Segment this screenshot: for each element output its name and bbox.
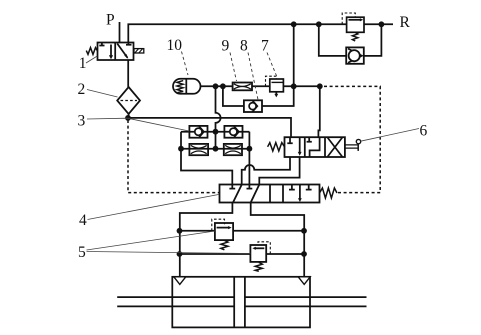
svg-text:10: 10: [167, 37, 183, 54]
svg-text:9: 9: [222, 38, 230, 55]
svg-text:P: P: [106, 12, 115, 29]
svg-text:5: 5: [78, 244, 86, 261]
svg-text:8: 8: [240, 38, 248, 55]
svg-text:4: 4: [79, 212, 87, 229]
svg-text:1: 1: [79, 55, 87, 72]
svg-text:2: 2: [78, 81, 86, 98]
svg-text:R: R: [400, 14, 411, 31]
svg-text:3: 3: [78, 113, 86, 130]
svg-text:7: 7: [261, 38, 269, 55]
svg-text:6: 6: [420, 123, 428, 140]
